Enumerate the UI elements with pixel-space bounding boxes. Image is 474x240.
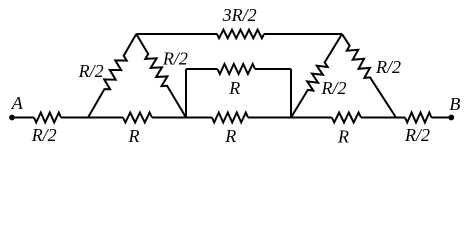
svg-text:R/2: R/2 [31, 125, 57, 145]
wire node 4 to R/2 (right bottom) [396, 117, 405, 119]
wire node 1 to R (bottom left) [88, 117, 123, 119]
wire rectangle top left [186, 68, 217, 70]
svg-text:R/2: R/2 [78, 61, 104, 81]
svg-text:R/2: R/2 [375, 57, 401, 77]
wire R to node 3 [248, 117, 291, 119]
svg-text:3R/2: 3R/2 [222, 5, 257, 25]
svg-text:R: R [224, 126, 236, 146]
wire left apex to 3R/2 [136, 33, 217, 35]
wire node 3 vertical riser [290, 69, 292, 118]
resistor R (bottom middle) [212, 113, 248, 123]
svg-text:R/2: R/2 [321, 78, 347, 98]
resistor 3R/2 (top) [217, 30, 264, 39]
svg-text:A: A [11, 93, 24, 113]
wire R/2 to node 1 [61, 117, 88, 119]
svg-text:R: R [228, 78, 240, 98]
terminal dot A [9, 115, 15, 121]
resistor R (bottom left) [123, 113, 152, 123]
wire node 2 vertical riser [185, 69, 187, 118]
wire R to node 2 [152, 117, 186, 119]
resistor R (bottom right) [332, 113, 361, 123]
svg-text:R: R [128, 126, 140, 146]
svg-text:B: B [449, 94, 460, 114]
terminal dot B [448, 115, 454, 121]
wire 3R/2 to right apex [264, 33, 342, 35]
wire R/2 to B [432, 117, 452, 119]
wire R to node 4 [361, 117, 396, 119]
resistor R/2 (right triangle, right leg, right apex to node4) [342, 34, 396, 118]
svg-text:R/2: R/2 [162, 49, 188, 69]
resistor R/2 (right bottom) [405, 113, 432, 123]
wire node 3 to R (bottom right) [291, 117, 332, 119]
resistor R/2 (left triangle, right leg, left apex to node2) [136, 34, 186, 118]
wire node 2 to R (bottom middle) [186, 117, 212, 119]
svg-text:R: R [337, 126, 349, 146]
resistor R/2 (left triangle, left leg, node1 to left apex) [88, 34, 136, 118]
resistor R (middle branch) [217, 64, 255, 74]
resistor R/2 (right triangle, left leg, node3 to right apex) [291, 34, 342, 118]
wire rectangle top right [255, 68, 291, 70]
svg-text:R/2: R/2 [404, 125, 430, 145]
resistor R/2 (left bottom) [34, 113, 61, 123]
wire A to R/2 [12, 117, 34, 119]
